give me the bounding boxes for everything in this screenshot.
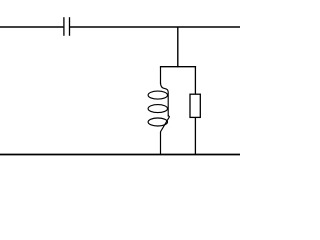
wire resistor bottom stub (194, 117, 196, 154)
resistor R1 (190, 94, 200, 117)
wire bottom rail (0, 153, 240, 155)
wire top rail left segment (0, 26, 63, 28)
wire top rail right segment (70, 26, 240, 28)
wire inductor bottom stub (160, 132, 162, 155)
node A top bar of parallel branch (160, 66, 196, 68)
wire inductor top stub (160, 67, 162, 84)
wire vertical drop from top rail to node A (177, 27, 179, 67)
inductor L1 (148, 83, 169, 132)
wire resistor top stub (194, 67, 196, 95)
capacitor C1 (64, 17, 70, 36)
